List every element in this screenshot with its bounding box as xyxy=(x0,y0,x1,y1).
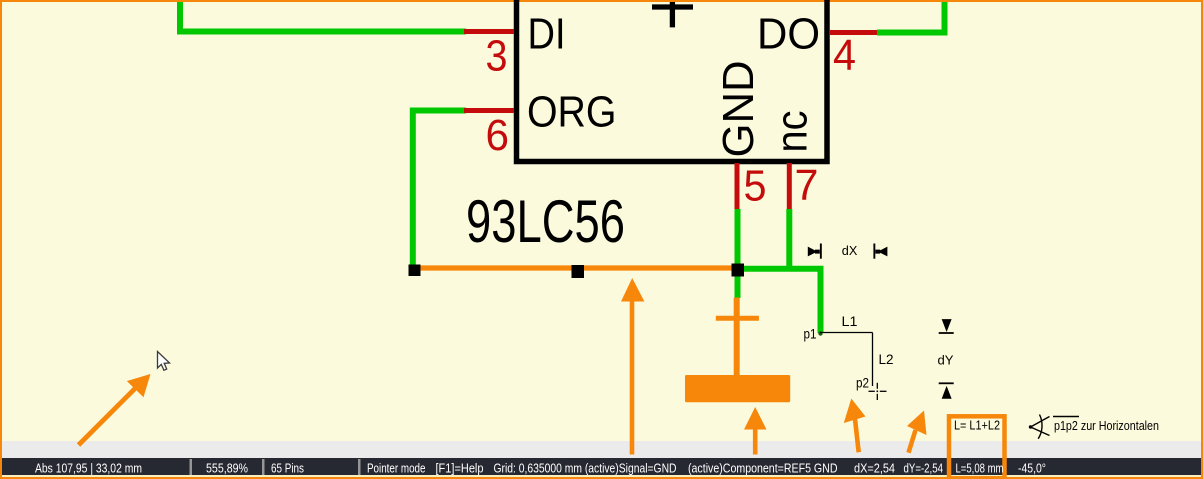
crosshair cursor at p2 xyxy=(869,383,887,400)
wire net to pin 3 DI xyxy=(180,2,466,32)
svg-text:(active)Component=REF5 GND: (active)Component=REF5 GND xyxy=(688,461,838,476)
svg-text:[F1]=Help: [F1]=Help xyxy=(436,461,484,476)
pin 4 DO stub xyxy=(830,30,879,35)
svg-text:6: 6 xyxy=(486,111,510,160)
svg-text:L= L1+L2: L= L1+L2 xyxy=(954,418,1000,433)
svg-text:L1: L1 xyxy=(842,313,858,329)
svg-text:Grid: 0,635000 mm (active)Sign: Grid: 0,635000 mm (active)Signal=GND xyxy=(494,461,677,476)
annotation arrow at dY xyxy=(907,411,927,453)
wire net to pin 6 ORG xyxy=(413,111,466,266)
svg-text:3: 3 xyxy=(486,32,508,81)
dY legend bottom arrow xyxy=(939,383,954,398)
measurement segment L2 xyxy=(872,333,874,387)
GND symbol REF5 lead (orange) xyxy=(734,298,740,378)
svg-text:dX: dX xyxy=(842,243,858,258)
GND symbol REF5 body bar xyxy=(685,375,790,402)
annotation arrow tall vertical at GND wire xyxy=(621,278,644,455)
dY legend top arrow xyxy=(939,320,954,333)
svg-text:Abs 107,95 | 33,02 mm: Abs 107,95 | 33,02 mm xyxy=(35,461,142,476)
svg-text:p1: p1 xyxy=(804,326,817,342)
svg-text:DO: DO xyxy=(757,10,820,59)
wire net from pin 4 DO xyxy=(877,2,945,33)
svg-text:L=5,08 mm: L=5,08 mm xyxy=(956,461,1004,476)
wire pin 7 down to node xyxy=(786,209,792,271)
dX legend left arrow xyxy=(808,244,822,259)
svg-text:dY: dY xyxy=(938,353,954,368)
mouse cursor xyxy=(158,352,170,371)
svg-text:Pointer mode: Pointer mode xyxy=(367,461,426,476)
svg-text:-45,0°: -45,0° xyxy=(1018,461,1046,476)
wire pin 5 down to GND node xyxy=(735,209,741,298)
annotation arrow at GND symbol xyxy=(744,407,767,455)
pin 5 GND stub xyxy=(735,163,740,211)
svg-text:7: 7 xyxy=(795,161,819,210)
status divider 3 xyxy=(358,459,361,475)
svg-text:p1p2 zur Horizontalen: p1p2 zur Horizontalen xyxy=(1054,418,1159,433)
svg-text:GND: GND xyxy=(714,61,763,158)
svg-text:ORG: ORG xyxy=(527,88,617,137)
highlighted GND net wire (orange) xyxy=(413,265,738,270)
wire horizontal node to elbow xyxy=(738,269,821,333)
annotation arrow at p2 xyxy=(844,399,866,453)
L= L1+L2 callout box xyxy=(949,416,1005,478)
status divider 2 xyxy=(262,459,265,475)
svg-text:65 Pins: 65 Pins xyxy=(271,461,304,476)
pin 6 ORG stub xyxy=(464,108,514,113)
GND symbol REF5 top plate xyxy=(716,316,759,321)
legend overline p1p2 xyxy=(1053,416,1079,418)
svg-text:555,89%: 555,89% xyxy=(206,461,248,476)
IC U1 93LC56 body xyxy=(517,0,828,162)
plus polarity mark on U1 xyxy=(652,2,693,27)
junction node C xyxy=(732,264,745,277)
svg-text:5: 5 xyxy=(744,162,767,211)
svg-text:DI: DI xyxy=(528,10,566,59)
angle legend icon xyxy=(1029,415,1050,439)
junction node B xyxy=(572,265,585,278)
dX legend right arrow xyxy=(873,244,887,259)
pin 7 nc stub xyxy=(787,163,792,211)
svg-text:L2: L2 xyxy=(879,351,894,367)
measurement segment L1 xyxy=(820,332,873,334)
svg-text:93LC56: 93LC56 xyxy=(466,188,625,255)
svg-text:nc: nc xyxy=(768,111,817,153)
svg-text:dY=-2,54: dY=-2,54 xyxy=(904,461,944,476)
svg-text:p2: p2 xyxy=(856,375,869,391)
status divider 1 xyxy=(190,459,193,475)
svg-text:dX=2,54: dX=2,54 xyxy=(854,461,895,476)
junction node A xyxy=(409,265,421,277)
svg-text:4: 4 xyxy=(833,31,856,80)
p1 wire end dot xyxy=(818,331,822,335)
pin 3 DI stub xyxy=(464,29,514,34)
annotation arrow big diagonal xyxy=(79,374,151,445)
